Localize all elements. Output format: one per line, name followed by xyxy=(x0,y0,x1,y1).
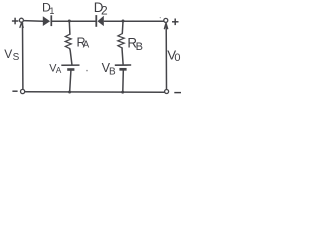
svg-text:A: A xyxy=(56,65,62,75)
svg-text:B: B xyxy=(136,41,143,53)
svg-text:B: B xyxy=(109,67,116,78)
svg-text:A: A xyxy=(83,40,90,51)
svg-text:0: 0 xyxy=(174,52,180,64)
svg-text:1: 1 xyxy=(49,6,54,16)
svg-text:2: 2 xyxy=(101,4,108,18)
svg-text:S: S xyxy=(13,52,20,63)
svg-text:V: V xyxy=(4,47,12,61)
